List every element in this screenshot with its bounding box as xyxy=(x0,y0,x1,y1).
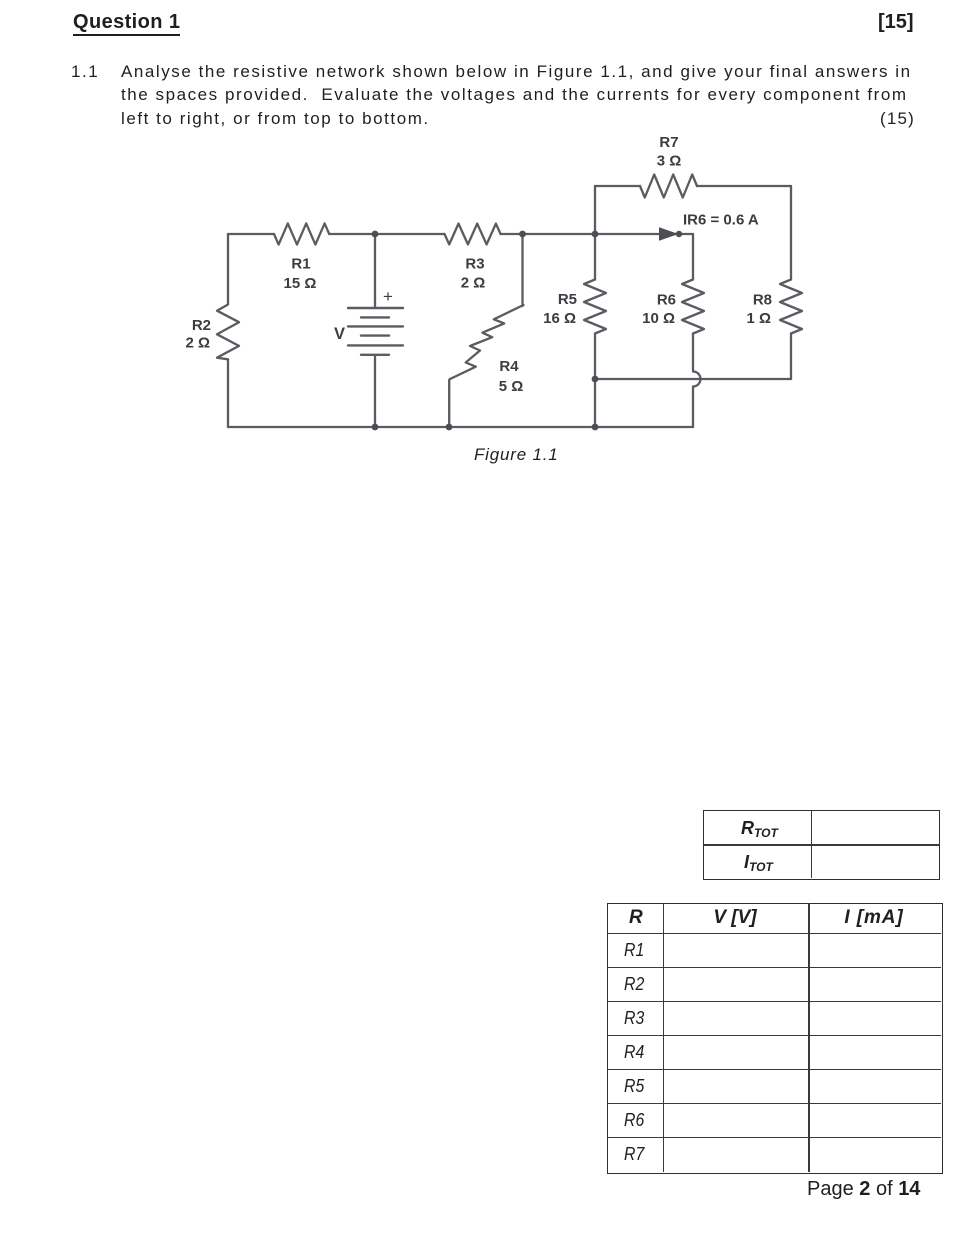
svg-text:R3: R3 xyxy=(465,256,484,273)
summary table RTOT/ITOT xyxy=(703,810,940,880)
results table row line 1 xyxy=(607,967,941,969)
svg-text:R7: R7 xyxy=(659,134,678,151)
svg-text:R5: R5 xyxy=(558,291,577,308)
resistor R2 xyxy=(217,305,239,360)
wire R4 bottom lead xyxy=(449,379,450,427)
wire R3 to R6 branch corner xyxy=(501,233,693,235)
paragraph line 2 xyxy=(121,85,908,105)
svg-text:R2: R2 xyxy=(192,317,211,334)
svg-text:V: V xyxy=(334,325,345,343)
circuit schematic SVG xyxy=(150,125,840,475)
resistor R7 xyxy=(640,175,697,198)
results table row line 4 xyxy=(607,1069,941,1071)
row label R7 xyxy=(624,1144,644,1165)
resistor R8 xyxy=(780,280,802,334)
wire R4 top lead vertical xyxy=(521,234,523,306)
junction node battery top xyxy=(372,231,379,238)
row label R6 xyxy=(624,1110,644,1131)
wire R6 branch lower with hop xyxy=(693,334,701,428)
svg-text:R4: R4 xyxy=(499,358,519,375)
battery V plate long 2 xyxy=(348,325,403,327)
svg-text:R1: R1 xyxy=(291,256,310,273)
svg-text:R8: R8 xyxy=(753,292,772,309)
battery V plate short 2 xyxy=(361,334,389,336)
wire left rail lower xyxy=(227,359,229,427)
wire battery top lead xyxy=(374,234,376,308)
svg-text:R6: R6 xyxy=(657,292,676,309)
junction node arrow tip xyxy=(676,231,682,237)
svg-text:1 Ω: 1 Ω xyxy=(746,310,771,327)
resistor R1 xyxy=(274,223,329,244)
junction node R5 rail xyxy=(592,424,599,431)
current arrow IR6 xyxy=(659,227,679,240)
row label R4 xyxy=(624,1042,644,1063)
results table row line 2 xyxy=(607,1001,941,1003)
row label R1 xyxy=(624,940,644,961)
results table row line 3 xyxy=(607,1035,941,1037)
row label R5 xyxy=(624,1076,644,1097)
header R xyxy=(629,907,643,929)
wire R5 branch upper xyxy=(594,186,596,280)
resistor R3 xyxy=(445,224,501,245)
svg-text:2 Ω: 2 Ω xyxy=(461,275,486,292)
wire R5 bottom to R8 bottom xyxy=(595,378,791,380)
marks "(15)" xyxy=(880,109,915,129)
svg-text:+: + xyxy=(383,287,393,306)
battery V plate short 1 xyxy=(361,316,389,318)
header V [V] xyxy=(713,907,756,929)
row label R3 xyxy=(624,1008,644,1029)
junction node R4 bottom xyxy=(446,424,453,431)
svg-text:3 Ω: 3 Ω xyxy=(657,153,682,170)
battery V plate long 1 xyxy=(348,307,403,309)
question number 1.1 xyxy=(71,62,99,82)
label RTOT xyxy=(741,818,778,840)
wire left rail upper xyxy=(227,234,229,304)
paragraph line 1 xyxy=(121,62,912,82)
wire R1 to R3 xyxy=(329,233,444,235)
resistor R5 xyxy=(584,280,606,334)
row label R2 xyxy=(624,974,644,995)
wire R7 left lead xyxy=(595,185,640,187)
battery V plate short 3 xyxy=(361,354,389,356)
svg-text:10 Ω: 10 Ω xyxy=(642,310,675,327)
junction node battery bottom xyxy=(372,424,379,431)
caption Figure 1.1 xyxy=(474,445,559,465)
svg-text:16 Ω: 16 Ω xyxy=(543,310,576,327)
footer page number xyxy=(807,1178,920,1201)
svg-text:IR6 = 0.6 A: IR6 = 0.6 A xyxy=(683,212,759,229)
svg-text:2 Ω: 2 Ω xyxy=(185,335,210,352)
wire R8 branch lower xyxy=(790,334,792,380)
results table column divider 2 xyxy=(808,903,810,1172)
heading "Question 1" xyxy=(73,11,180,36)
resistor R4 xyxy=(450,305,523,379)
wire R6 branch upper xyxy=(692,234,694,280)
results table column divider 1 xyxy=(663,903,665,1172)
results table row line 6 xyxy=(607,1137,941,1139)
results table xyxy=(607,903,943,1174)
paragraph line 3 xyxy=(121,109,430,129)
wire R7 right lead xyxy=(697,185,791,187)
wire top-left segment xyxy=(228,233,274,235)
resistor R6 xyxy=(682,280,704,334)
wire bottom rail xyxy=(228,426,693,428)
wire R8 branch upper xyxy=(790,186,792,280)
header I [mA] xyxy=(844,907,903,929)
results table row line 5 xyxy=(607,1103,941,1105)
results table header row line xyxy=(607,933,941,935)
wire R5 branch lower xyxy=(594,334,596,428)
heading mark "[15]" xyxy=(878,11,914,34)
svg-text:5 Ω: 5 Ω xyxy=(499,378,524,395)
battery V plate long 3 xyxy=(348,344,403,346)
svg-text:15 Ω: 15 Ω xyxy=(284,275,317,292)
label ITOT xyxy=(744,852,773,874)
wire battery bottom lead xyxy=(374,355,376,427)
junction node R5 bottom xyxy=(592,376,599,383)
junction node R5 top xyxy=(592,231,599,238)
junction node R3 right xyxy=(519,231,526,238)
